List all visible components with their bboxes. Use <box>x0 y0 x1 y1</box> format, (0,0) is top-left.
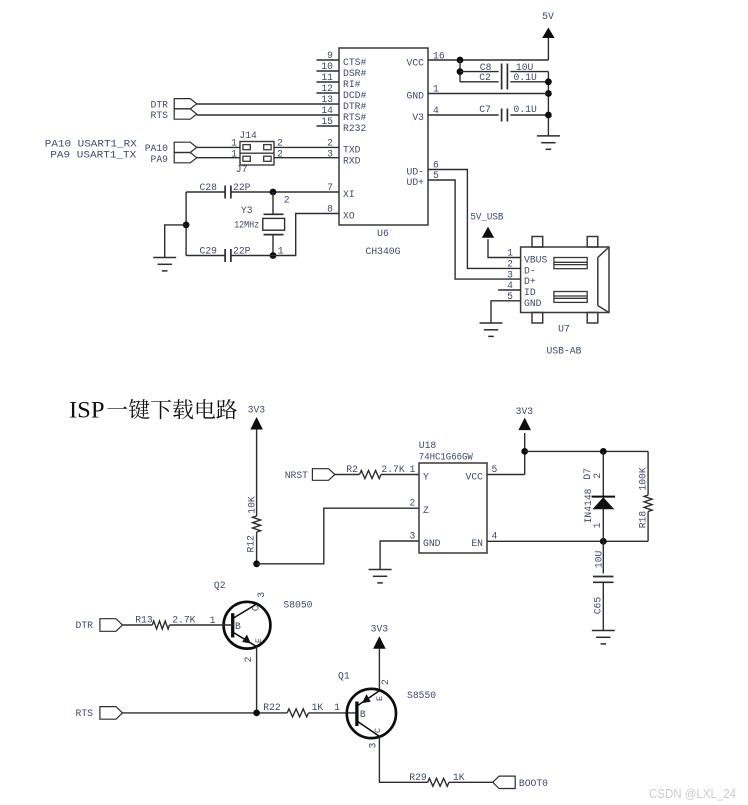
USB contact slot lower <box>554 292 587 303</box>
port flag RTS bottom <box>100 707 123 720</box>
svg-text:C7: C7 <box>479 104 491 115</box>
svg-text:U6: U6 <box>377 228 389 239</box>
svg-text:U7: U7 <box>558 324 570 335</box>
svg-text:1K: 1K <box>312 702 324 713</box>
junction C8 row <box>457 68 464 75</box>
wire NRST to R2 <box>335 474 360 476</box>
svg-text:PA10 USART1_RX: PA10 USART1_RX <box>45 138 137 149</box>
wire node to U18 Z <box>257 508 419 564</box>
svg-text:UD-: UD- <box>407 167 424 178</box>
resistor R29 1K <box>428 778 449 786</box>
wire RTS to node <box>122 712 287 714</box>
wire R29 to BOOT0 <box>449 781 493 783</box>
wire R12 to collector node <box>256 532 258 564</box>
ground crystal <box>153 258 176 271</box>
power arrow 3V3 right <box>518 418 531 431</box>
wire C29 to XO pin 8 <box>231 214 339 256</box>
svg-text:ID: ID <box>524 287 536 298</box>
svg-text:5V: 5V <box>542 11 554 22</box>
ground decoupling <box>537 136 560 149</box>
svg-text:PA9: PA9 <box>151 154 169 165</box>
junction XO node <box>270 252 277 259</box>
svg-text:Y3: Y3 <box>241 205 253 216</box>
svg-text:3: 3 <box>507 269 513 280</box>
svg-text:R2: R2 <box>346 464 358 475</box>
wire GND pin 1 <box>428 93 548 95</box>
svg-text:Q2: Q2 <box>214 580 226 591</box>
junction RTS-emitter <box>253 710 260 717</box>
wire R13 to Q2 base <box>170 624 233 626</box>
junction GND pin row <box>545 90 552 97</box>
svg-text:V3: V3 <box>412 112 424 123</box>
svg-text:D-: D- <box>524 265 536 276</box>
svg-text:10: 10 <box>321 61 333 72</box>
port flag BOOT0 <box>493 776 516 788</box>
svg-text:R29: R29 <box>409 772 427 783</box>
junction R12-collector <box>253 560 260 567</box>
svg-text:2: 2 <box>592 473 603 479</box>
wire D7 cathode lead <box>602 451 604 496</box>
svg-text:BOOT0: BOOT0 <box>519 778 548 789</box>
wire UD+ to USB D+ <box>428 180 521 279</box>
wire C28 to XI pin 7 <box>231 191 339 193</box>
wire U18 GND <box>380 541 419 570</box>
wire J7 to RXD <box>274 157 339 159</box>
power arrow 3V3 middle <box>373 636 386 649</box>
svg-text:NRST: NRST <box>285 470 308 481</box>
resistor R18 100K <box>644 495 652 512</box>
crystal Y3 12MHz <box>263 214 285 234</box>
svg-text:CSDN @LXL_24: CSDN @LXL_24 <box>649 786 736 801</box>
svg-text:CH340G: CH340G <box>366 246 401 257</box>
port flag NRST <box>312 469 335 481</box>
svg-text:B: B <box>360 709 366 720</box>
wire PA10 to J14 <box>197 146 240 148</box>
svg-text:2: 2 <box>284 195 290 206</box>
wire Q2 emitter down <box>256 647 258 713</box>
analog switch U18 74HC1G66GW body <box>419 463 487 553</box>
svg-text:RTS: RTS <box>151 110 169 121</box>
svg-text:DTR: DTR <box>76 620 94 631</box>
svg-text:3V3: 3V3 <box>516 406 534 417</box>
svg-text:GND: GND <box>524 298 542 309</box>
svg-text:IN4148: IN4148 <box>583 488 594 523</box>
svg-text:R13: R13 <box>135 614 153 625</box>
wire 3V3 to VCC node <box>524 433 526 475</box>
ground USB <box>480 323 503 336</box>
port flag PA9 <box>174 153 197 163</box>
svg-text:2: 2 <box>243 656 254 662</box>
wire EN rail to R18 bottom <box>487 540 648 542</box>
svg-text:CTS#: CTS# <box>343 57 366 68</box>
svg-text:2: 2 <box>380 679 391 685</box>
wire cap gnd vertical <box>547 72 549 136</box>
wire 5V_USB to VBUS <box>488 239 521 257</box>
wire U18 VCC <box>487 474 525 476</box>
svg-text:PA10: PA10 <box>145 143 168 154</box>
wire crystal caps left vertical <box>185 192 187 256</box>
wire 5V down <box>547 38 549 60</box>
svg-text:C65: C65 <box>592 597 603 615</box>
svg-text:1: 1 <box>334 702 340 713</box>
svg-text:5: 5 <box>492 464 498 475</box>
svg-text:TXD: TXD <box>343 144 361 155</box>
wire R22 to Q1 base <box>309 712 357 714</box>
wire PA9 to J7 <box>197 157 240 159</box>
transistor Q1 S8550 <box>347 689 396 738</box>
svg-text:3V3: 3V3 <box>371 624 389 635</box>
svg-text:XI: XI <box>343 189 355 200</box>
svg-text:2.7K: 2.7K <box>381 464 404 475</box>
IC U6 CH340G body <box>339 48 428 225</box>
wire VCC pin 16 <box>428 59 548 61</box>
wire 3V3 to R12 <box>256 430 258 517</box>
wire pin 15 stub <box>317 125 340 127</box>
wire C28 left <box>186 191 225 193</box>
svg-text:C8: C8 <box>480 62 492 73</box>
wire R18 top lead <box>647 451 649 495</box>
svg-text:J7: J7 <box>236 164 248 175</box>
wire R2 to U18 Y <box>381 474 419 476</box>
wire USB GND <box>491 301 521 323</box>
wire 3V3 to Q1 emitter <box>378 649 380 691</box>
resistor R22 1K <box>287 709 308 717</box>
capacitor C7 0.1U <box>502 109 508 122</box>
svg-text:VCC: VCC <box>466 472 484 483</box>
wire DTR to R13 <box>122 624 152 626</box>
resistor R12 10K <box>253 516 261 532</box>
wire pin 11 stub <box>317 81 340 83</box>
svg-text:VCC: VCC <box>407 58 425 69</box>
svg-text:ISP: ISP <box>69 398 105 423</box>
svg-text:15: 15 <box>321 116 333 127</box>
wire RTS to pin 14 <box>197 114 339 116</box>
wire R18 bottom lead <box>647 512 649 542</box>
capacitor C65 10U <box>593 577 614 583</box>
diode D7 IN4148 <box>592 497 616 510</box>
svg-text:RXD: RXD <box>343 155 361 166</box>
wire crystal bottom <box>272 235 274 256</box>
svg-text:R18: R18 <box>638 511 649 529</box>
svg-text:1K: 1K <box>453 772 465 783</box>
svg-text:RTS#: RTS# <box>343 112 366 123</box>
wire pin 12 stub <box>317 92 340 94</box>
svg-text:VBUS: VBUS <box>524 255 547 266</box>
svg-text:R22: R22 <box>263 702 281 713</box>
svg-text:5V_USB: 5V_USB <box>470 212 503 223</box>
svg-text:J14: J14 <box>239 130 257 141</box>
svg-text:XO: XO <box>343 211 355 222</box>
svg-text:2: 2 <box>327 137 333 148</box>
wire to crystal top <box>272 192 274 214</box>
svg-text:100K: 100K <box>638 467 649 490</box>
wire DTR to pin 13 <box>197 103 339 105</box>
wire C65 top lead <box>602 541 604 573</box>
svg-text:DTR#: DTR# <box>343 101 366 112</box>
ground C65 <box>592 631 615 644</box>
power arrow 3V3 left <box>250 417 263 430</box>
port flag RTS <box>174 109 197 119</box>
port flag DTR <box>174 99 197 109</box>
svg-text:Q1: Q1 <box>338 671 350 682</box>
svg-text:C: C <box>251 605 262 611</box>
svg-text:R12: R12 <box>246 535 257 553</box>
svg-text:R232: R232 <box>343 123 366 134</box>
svg-text:2: 2 <box>507 259 513 270</box>
svg-text:S8050: S8050 <box>283 600 312 611</box>
junction C7 node <box>545 112 552 119</box>
connector J14/J7 body <box>240 142 274 166</box>
transistor Q2 S8050 <box>224 602 271 649</box>
svg-text:1: 1 <box>592 522 603 528</box>
svg-text:74HC1G66GW: 74HC1G66GW <box>419 452 473 463</box>
port flag PA10 <box>174 142 197 152</box>
svg-text:DSR#: DSR# <box>343 68 366 79</box>
svg-text:3: 3 <box>256 592 267 598</box>
wire C7 right <box>510 114 548 116</box>
svg-text:RTS: RTS <box>76 708 94 719</box>
svg-text:10K: 10K <box>247 496 258 514</box>
junction D7 bottom <box>600 538 607 545</box>
capacitor C29 bars <box>225 249 231 262</box>
junction D7 top <box>600 448 607 455</box>
svg-text:U18: U18 <box>419 440 437 451</box>
svg-text:D+: D+ <box>524 276 536 287</box>
svg-text:DTR: DTR <box>151 99 169 110</box>
wire Q1 collector to R29 <box>379 736 410 782</box>
svg-text:2.7K: 2.7K <box>172 614 195 625</box>
svg-text:UD+: UD+ <box>407 177 425 188</box>
junction C2 node <box>545 78 552 85</box>
wire pin 10 stub <box>317 70 340 72</box>
svg-text:Y: Y <box>423 472 429 483</box>
svg-text:RI#: RI# <box>343 79 361 90</box>
port flag DTR bottom <box>100 619 123 632</box>
svg-text:12MHz: 12MHz <box>234 220 259 231</box>
svg-text:10U: 10U <box>594 550 605 568</box>
wire C8 right <box>510 71 548 73</box>
wire J14 to TXD <box>274 146 339 148</box>
wire C8 left <box>460 71 499 73</box>
junction XI node <box>270 189 277 196</box>
junction crystal gnd <box>183 222 190 229</box>
svg-text:0.1U: 0.1U <box>514 104 537 115</box>
svg-text:1: 1 <box>410 464 416 475</box>
junction VCC-C8 <box>457 57 464 64</box>
wire C2 left <box>460 81 499 83</box>
svg-text:USB-AB: USB-AB <box>547 346 582 357</box>
power arrow 5V_USB <box>482 227 494 238</box>
svg-text:GND: GND <box>407 91 425 102</box>
svg-text:3: 3 <box>368 743 379 749</box>
svg-text:3V3: 3V3 <box>248 405 266 416</box>
svg-text:DCD#: DCD# <box>343 90 366 101</box>
power arrow 5V <box>542 28 554 39</box>
svg-text:1: 1 <box>507 248 513 259</box>
ground U18 <box>369 570 392 583</box>
capacitor C8 10U <box>502 64 508 90</box>
wire to crystal ground <box>165 225 186 258</box>
svg-text:12: 12 <box>321 83 333 94</box>
svg-text:11: 11 <box>321 72 333 83</box>
resistor R13 2.7K <box>152 621 169 629</box>
svg-text:E: E <box>255 638 264 643</box>
wire pin 9 stub <box>317 59 340 61</box>
svg-text:2: 2 <box>410 498 416 509</box>
wire cap branch vertical <box>459 60 461 82</box>
svg-text:GND: GND <box>423 538 441 549</box>
connector U7 USB-AB body <box>521 237 609 324</box>
svg-text:S8550: S8550 <box>407 690 436 701</box>
wire top rail to D7 R18 <box>525 450 648 452</box>
svg-text:C: C <box>373 728 383 733</box>
svg-text:9: 9 <box>327 50 333 61</box>
capacitor C28 bars <box>225 186 231 199</box>
wire C2 right <box>510 81 548 83</box>
svg-text:3: 3 <box>410 530 416 541</box>
USB contact slot upper <box>554 258 587 269</box>
junction 3V3 rail <box>521 448 528 455</box>
svg-text:Z: Z <box>423 505 429 516</box>
svg-text:4: 4 <box>492 530 498 541</box>
svg-text:PA9 USART1_TX: PA9 USART1_TX <box>50 149 136 160</box>
wire C65 to ground <box>602 582 604 630</box>
wire UD- to USB D- <box>428 170 521 269</box>
wire V3 pin 4 <box>428 114 499 116</box>
title chinese characters <box>107 399 237 419</box>
svg-text:EN: EN <box>471 538 483 549</box>
wire ID stub <box>498 289 520 291</box>
wire C29 left <box>186 255 225 257</box>
wire D7 anode lead <box>602 509 604 542</box>
svg-text:E: E <box>375 696 385 701</box>
svg-text:B: B <box>235 621 241 632</box>
wire to R29 <box>410 781 428 783</box>
resistor R2 2.7K <box>360 471 382 479</box>
